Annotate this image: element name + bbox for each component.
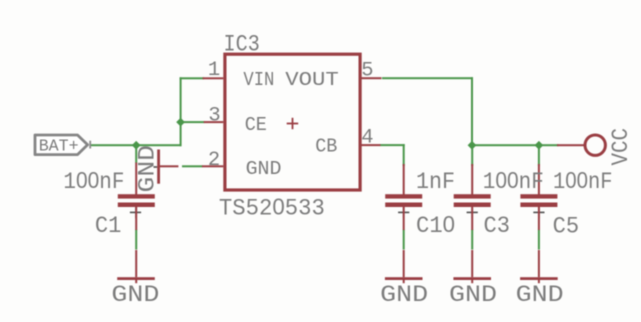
wire C3 top net [471, 145, 473, 166]
value 100nF (C3) [483, 167, 544, 195]
junction at C5 / bus [535, 141, 544, 150]
pin 3 stub [204, 121, 224, 123]
svg-text:4: 4 [361, 126, 373, 149]
wire C1 bottom net [135, 230, 137, 250]
capacitor C10 [385, 164, 422, 230]
capacitor C1 [118, 163, 155, 231]
svg-text:2: 2 [208, 149, 220, 172]
pin name CB [315, 135, 337, 157]
ground symbol at pin 2 (rotated) [134, 145, 178, 193]
ground symbol below C3 [449, 250, 497, 309]
ref C10 [416, 211, 455, 239]
wire BAT+ net horizontal [90, 144, 182, 146]
svg-text:GND: GND [380, 282, 428, 309]
svg-text:1nF: 1nF [416, 169, 455, 195]
svg-text:TS520533: TS520533 [219, 194, 325, 223]
wire pin5 VOUT net [382, 77, 473, 79]
svg-text:GND: GND [516, 282, 564, 309]
svg-text:VIN: VIN [243, 69, 274, 91]
svg-text:CE: CE [245, 114, 267, 136]
pin 5 stub [361, 77, 382, 79]
wire C3 bottom net [471, 230, 473, 250]
svg-text:C5: C5 [553, 214, 580, 240]
wire pin4 CB net [380, 144, 405, 146]
label IC3 [224, 32, 260, 59]
svg-text:3: 3 [208, 105, 220, 128]
svg-text:100nF: 100nF [483, 167, 544, 195]
ground symbol below C10 [380, 250, 428, 309]
svg-text:GND: GND [111, 282, 159, 309]
svg-text:VCC: VCC [608, 128, 634, 166]
svg-text:IC3: IC3 [224, 32, 260, 59]
svg-text:100nF: 100nF [63, 167, 124, 195]
IC origin cross [287, 118, 299, 129]
svg-text:CB: CB [315, 135, 337, 157]
pin 2 stub [202, 165, 223, 167]
svg-text:GND: GND [449, 282, 497, 309]
svg-text:C10: C10 [416, 211, 455, 239]
value 100nF (C5) [553, 167, 613, 195]
IC3 box [225, 54, 360, 190]
wire vertical VOUT down to bus [471, 77, 473, 146]
BAT+ origin tick [89, 141, 91, 149]
wire C5 top net [538, 145, 540, 166]
wire pin1 net [180, 77, 204, 79]
svg-text:5: 5 [361, 59, 373, 82]
wire pin2 gnd net [182, 165, 203, 167]
pin number 4 [361, 126, 373, 149]
pin number 5 [361, 59, 373, 82]
ground symbol below C5 [516, 250, 564, 309]
pin 1 stub [203, 77, 224, 79]
value 1nF (C10) [416, 169, 455, 195]
wire pin3 net [180, 121, 205, 123]
ref C1 [95, 213, 122, 239]
capacitor C3 [454, 164, 491, 230]
svg-text:C1: C1 [95, 213, 122, 239]
pin name VIN [243, 69, 274, 91]
wire C10 bottom net [403, 230, 405, 250]
VCC supply symbol [557, 128, 634, 166]
wire vertical to pins 1 and 3 [180, 77, 182, 146]
pin number 3 [208, 105, 220, 128]
wire C10 top net [403, 144, 405, 166]
wire C1 top net [135, 144, 137, 163]
capacitor C5 [520, 164, 557, 230]
svg-text:GND: GND [246, 158, 282, 180]
pin 4 stub [361, 144, 381, 146]
pin name VOUT [285, 69, 339, 91]
junction at C3 / bus [468, 141, 477, 150]
BAT+ flag [35, 135, 88, 157]
svg-text:100nF: 100nF [553, 167, 613, 195]
svg-text:BAT+: BAT+ [39, 138, 79, 157]
junction at BAT+ / C1 [132, 141, 141, 150]
ref C3 [484, 213, 511, 239]
label TS520533 [219, 194, 325, 223]
wire bus to VCC [471, 144, 559, 146]
ref C5 [553, 214, 580, 240]
pin number 1 [208, 59, 220, 82]
pin name GND [246, 158, 282, 180]
ground symbol below C1 [111, 250, 159, 309]
svg-text:1: 1 [208, 59, 220, 82]
wire C5 bottom net [538, 230, 540, 250]
junction at pin3 branch [176, 118, 185, 127]
pin name CE [245, 114, 267, 136]
pin number 2 [208, 149, 220, 172]
svg-text:VOUT: VOUT [285, 69, 339, 91]
svg-text:C3: C3 [484, 213, 511, 239]
svg-text:GND: GND [134, 145, 160, 193]
value 100nF (C1) [63, 167, 124, 195]
